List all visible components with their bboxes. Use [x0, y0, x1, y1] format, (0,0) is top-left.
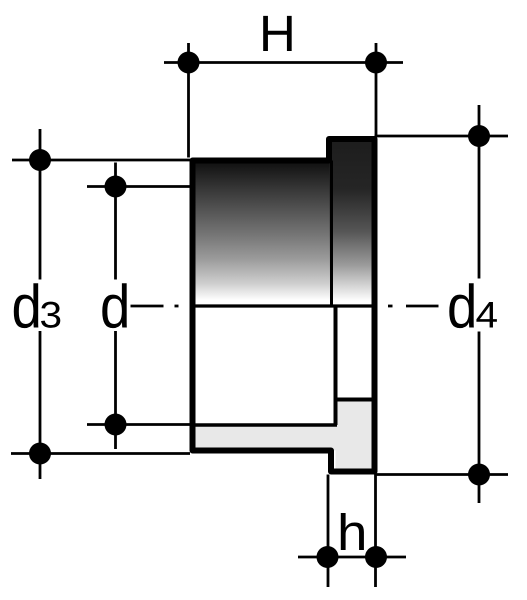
part outline upper half	[193, 139, 375, 306]
dimension d3 extension lower	[39, 331, 42, 479]
dimension d extension upper	[114, 163, 117, 280]
dimension h right extension	[374, 475, 377, 588]
body upper half gradient fill	[193, 161, 332, 307]
part outline lower half	[193, 306, 375, 472]
label d4	[449, 283, 474, 328]
bore inner surface line	[193, 423, 338, 427]
label H	[263, 16, 291, 51]
lower collar section fill	[336, 400, 375, 472]
dimension d4 top line	[375, 135, 509, 138]
label h	[341, 513, 364, 550]
dimension h left dot	[317, 546, 339, 568]
dimension d top dot	[105, 176, 127, 198]
label d	[102, 283, 127, 328]
centerline dash-dot left	[131, 305, 164, 308]
dimension h right dot	[365, 546, 387, 568]
lower wall section fill	[193, 425, 336, 451]
dimension d4 top dot	[468, 125, 490, 147]
collar inner surface line	[334, 398, 375, 402]
dimension H left extension	[187, 43, 190, 158]
collar upper half gradient fill	[330, 139, 375, 306]
dimension H left dot	[178, 52, 200, 74]
dimension d4 bottom line	[375, 473, 509, 476]
collar left edge line	[330, 161, 333, 307]
dimension d3 bottom dot	[29, 443, 51, 465]
dimension d3 bottom line	[11, 452, 190, 455]
dimension d bottom dot	[105, 414, 127, 436]
dimension d extension lower	[114, 331, 117, 449]
dimension d4 extension upper	[478, 105, 481, 279]
dimension H line	[164, 61, 403, 64]
dimension d bottom line	[87, 423, 190, 426]
socket bottom face line	[334, 306, 338, 425]
dimension h line	[298, 556, 406, 559]
centerline dash-dot right	[388, 305, 393, 308]
label d3	[14, 283, 39, 328]
dimension H right dot	[365, 52, 387, 74]
dimension d3 top line	[12, 159, 190, 162]
dimension d top line	[87, 185, 190, 188]
dimension d4 bottom dot	[468, 464, 490, 486]
centerline solid inside part	[190, 304, 377, 307]
dimension d3 extension upper	[39, 129, 42, 280]
dimension d4 extension lower	[478, 332, 481, 504]
dimension d3 top dot	[29, 149, 51, 171]
dimension h left extension	[327, 475, 330, 588]
dimension H right extension	[375, 43, 378, 136]
